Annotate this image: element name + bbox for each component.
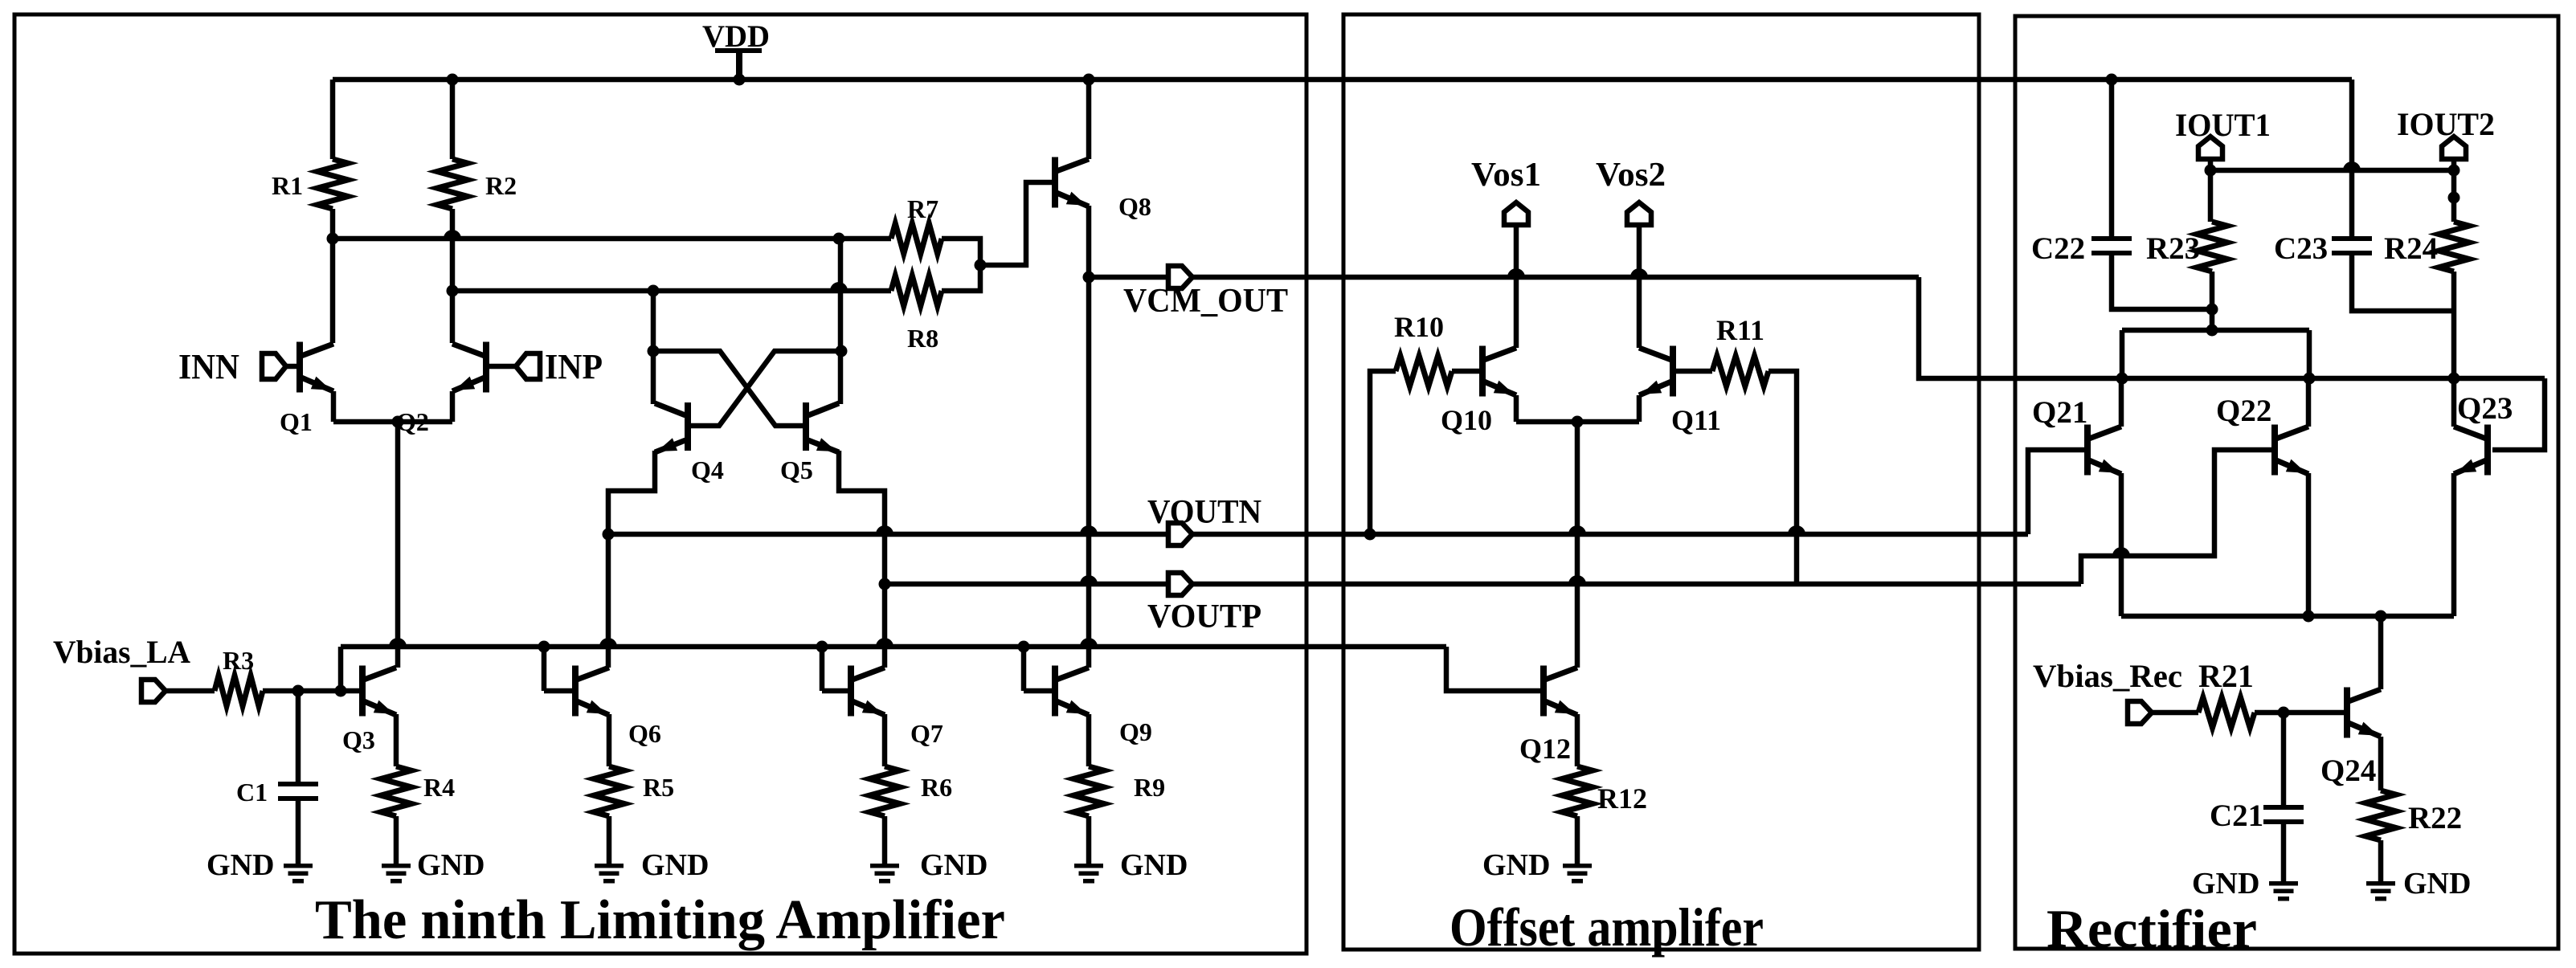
wire C23 bottom	[2352, 251, 2454, 311]
wire Q6 collector line	[606, 534, 611, 668]
wire R5 to ground	[607, 816, 612, 864]
wire VOUTP riser to Q22 base	[2081, 450, 2271, 584]
svg-text:R10: R10	[1394, 311, 1444, 343]
transistor Q3	[342, 666, 396, 755]
node R23 bridge junction	[2206, 325, 2218, 337]
wire Q10 emitter	[1514, 395, 1519, 422]
node IOUT2 junction b	[2448, 192, 2460, 204]
node C21 tap	[2278, 707, 2290, 719]
node R23 C22 junction	[2206, 304, 2218, 316]
port IOUT1	[2175, 107, 2271, 159]
svg-text:R7: R7	[907, 194, 938, 223]
wire C22 from VDD	[2109, 80, 2115, 236]
power VDD symbol	[702, 19, 770, 80]
transistor Q21	[2032, 395, 2121, 476]
node VDD junction R2	[447, 74, 459, 86]
wire Q9 emitter	[1086, 714, 1092, 766]
wire port to R21	[2152, 710, 2198, 716]
wire VCM hop Vos1	[1507, 268, 1525, 277]
wire Q6 base	[544, 688, 572, 694]
wire R22 to ground	[2378, 840, 2384, 881]
node R7 R8 join	[975, 259, 987, 272]
wire Q4 emitter to VOUTN	[608, 451, 655, 534]
wire Q5 collector	[838, 351, 844, 404]
wire node A horizontal	[333, 236, 891, 242]
ground R22	[2366, 867, 2471, 901]
transistor Q1	[280, 342, 333, 437]
wire C21 bottom	[2281, 819, 2287, 881]
svg-text:C21: C21	[2210, 798, 2263, 833]
node bias bus tap	[335, 685, 347, 697]
wire Q3 emitter	[394, 714, 399, 766]
wire Q22 collector	[2306, 378, 2312, 427]
svg-text:R4: R4	[423, 773, 455, 802]
resistor R10	[1394, 311, 1452, 386]
transistor Q4	[655, 402, 724, 484]
wire Q9 collector line	[1086, 277, 1092, 668]
port VCM_OUT	[1123, 266, 1288, 320]
capacitor C1	[236, 778, 318, 807]
wire Q22 emitter	[2306, 473, 2312, 616]
svg-text:R5: R5	[643, 773, 674, 802]
wire Q7 emitter	[882, 714, 888, 766]
svg-text:Q7: Q7	[910, 719, 943, 748]
wire Q12 emitter	[1575, 714, 1580, 766]
svg-text:Q11: Q11	[1671, 404, 1721, 436]
ground R6	[870, 848, 987, 884]
port Vbias_Rec	[2033, 658, 2182, 724]
port IOUT2	[2397, 106, 2495, 159]
node collector bus Q21	[2116, 373, 2128, 385]
wire Vos2 to Q11 collector	[1637, 225, 1642, 348]
resistor R22	[2365, 790, 2462, 840]
svg-text:GND: GND	[1482, 848, 1550, 882]
svg-text:GND: GND	[920, 848, 987, 882]
svg-text:GND: GND	[641, 848, 709, 882]
svg-text:R12: R12	[1597, 782, 1647, 815]
svg-text:GND: GND	[2192, 867, 2259, 901]
svg-text:IOUT1: IOUT1	[2175, 107, 2271, 143]
wire VOUTN hops	[876, 525, 1805, 534]
node B junction R2	[447, 285, 459, 297]
wire rectifier emitter bus	[2121, 614, 2454, 619]
wire R10 to Q10 base	[1452, 369, 1479, 374]
resistor R6	[869, 766, 952, 816]
wire VOUTN riser to Q21 base	[2028, 450, 2084, 534]
wire R9 to ground	[1086, 816, 1092, 864]
svg-text:Q6: Q6	[628, 719, 661, 748]
wire Q8 collector to VDD	[1086, 80, 1092, 159]
svg-text:Vos1: Vos1	[1471, 157, 1541, 194]
wire bias bus left drop	[338, 647, 344, 691]
ground R5	[595, 848, 709, 884]
wire VOUTP line	[885, 582, 2081, 587]
label The ninth Limiting Amplifier	[315, 889, 1005, 951]
svg-text:GND: GND	[417, 848, 485, 882]
wire bridge left drop	[2120, 330, 2125, 378]
svg-text:Offset amplifer: Offset amplifer	[1450, 897, 1764, 958]
wire bias bus hops	[389, 638, 1098, 647]
wire Q23 emitter	[2451, 473, 2457, 616]
svg-text:Q23: Q23	[2457, 391, 2513, 426]
wire port to R3	[166, 688, 215, 694]
wire Q23 collector	[2451, 378, 2457, 427]
resistor R4	[381, 766, 455, 816]
port INP	[489, 347, 603, 386]
svg-text:C23: C23	[2274, 231, 2328, 266]
wire Q5 emitter to VOUTP	[839, 451, 885, 584]
wire to Q8 base	[980, 182, 1052, 265]
svg-text:Rectifier: Rectifier	[2046, 898, 2257, 959]
resistor R5	[594, 766, 674, 816]
wire tail to Q12 collector	[1575, 422, 1580, 668]
wire R1 to node A	[330, 209, 336, 239]
wire C1 top	[296, 691, 301, 782]
port INN	[178, 347, 296, 386]
wire emitter bus Q1 Q2	[333, 419, 452, 425]
wire Q2 emitter	[450, 391, 456, 422]
svg-text:GND: GND	[2403, 867, 2471, 901]
wire bias bus	[341, 644, 1446, 650]
transistor Q10	[1441, 346, 1516, 437]
wire Q8 emitter to VCM node	[1086, 206, 1092, 277]
transistor Q24	[2320, 688, 2381, 789]
wire node A drop to cross-couple	[838, 239, 844, 351]
resistor R8	[891, 276, 942, 353]
wire R7 right	[942, 239, 980, 265]
label Offset amplifer	[1450, 897, 1764, 958]
ground R4	[382, 848, 485, 884]
svg-text:C22: C22	[2031, 231, 2085, 266]
wire Q21 collector	[2119, 378, 2124, 427]
node bias Q7 tap	[816, 641, 828, 653]
wire R21 to Q24 base	[2255, 710, 2344, 716]
wire Q7 collector line	[882, 584, 888, 668]
wire Q6 emitter	[607, 714, 612, 766]
wire Vos1 to Q10 collector	[1514, 225, 1519, 348]
wire Q1 emitter	[331, 391, 337, 422]
transistor Q7	[848, 666, 943, 749]
wire R12 to ground	[1575, 816, 1580, 864]
wire VDD to R2	[450, 80, 456, 159]
node emitter bus Q24	[2375, 611, 2387, 623]
wire IOUT1 stub	[2208, 159, 2214, 222]
svg-text:Q5: Q5	[780, 455, 813, 484]
wire bias Q6 drop	[542, 647, 547, 691]
resistor R21	[2198, 658, 2255, 728]
wire R23 bottom	[2210, 272, 2215, 330]
svg-text:INN: INN	[178, 347, 239, 386]
svg-text:Q1: Q1	[280, 407, 313, 436]
label Rectifier	[2046, 898, 2257, 959]
node C1 tap	[292, 685, 305, 697]
svg-text:The ninth Limiting Amplifier: The ninth Limiting Amplifier	[315, 889, 1005, 951]
wire bias Q7 drop	[820, 647, 825, 691]
node bias Q6 tap	[538, 641, 550, 653]
svg-text:Q4: Q4	[691, 455, 724, 484]
port VOUTN	[1147, 494, 1261, 545]
svg-text:R23: R23	[2146, 231, 2200, 266]
svg-text:VOUTP: VOUTP	[1147, 598, 1261, 635]
ground R9	[1074, 848, 1188, 884]
transistor Q22	[2216, 394, 2308, 476]
svg-text:Q3: Q3	[342, 725, 375, 754]
wire VDD rail	[333, 77, 2352, 83]
wire node A hop over R2 branch	[444, 230, 461, 239]
wire IOUT line	[2210, 168, 2454, 174]
svg-text:GND: GND	[206, 848, 274, 882]
node B junction cross-couple	[648, 285, 660, 297]
wire R10 left to VOUTN	[1370, 371, 1396, 534]
wire Q11 base to R11	[1676, 369, 1712, 374]
ground C1	[206, 848, 313, 884]
box The ninth Limiting Amplifier border	[14, 14, 1306, 954]
wire IOUT2 stub	[2451, 159, 2457, 222]
ground R12	[1482, 848, 1592, 884]
svg-text:GND: GND	[1120, 848, 1188, 882]
wire node B hop at cross-couple drop	[830, 282, 848, 291]
wire VDD to R1	[330, 80, 336, 159]
resistor R12	[1562, 766, 1647, 816]
svg-text:R24: R24	[2384, 231, 2438, 266]
wire R6 to ground	[882, 816, 888, 864]
node tail junction	[392, 416, 404, 428]
wire R2 to node B	[450, 209, 456, 291]
wire R24 bottom	[2451, 272, 2457, 378]
wire R11 right to VOUTP	[1768, 371, 1797, 584]
wire C1 bottom	[296, 796, 301, 864]
node collector bus Q23	[2448, 373, 2460, 385]
node VOUTP left	[879, 578, 891, 590]
wire Q11 emitter	[1637, 395, 1642, 422]
capacitor C22	[2031, 231, 2132, 266]
transistor Q23	[2454, 391, 2513, 476]
wire Q4 base cross link	[689, 351, 841, 426]
wire node B drop to cross-couple	[651, 291, 656, 351]
capacitor C21	[2210, 798, 2304, 833]
transistor Q11	[1639, 346, 1721, 437]
box Rectifier border	[2015, 16, 2558, 949]
svg-text:INP: INP	[545, 347, 603, 386]
wire R8 right	[942, 265, 980, 291]
resistor R23	[2146, 222, 2227, 272]
svg-text:Vbias_LA: Vbias_LA	[53, 634, 190, 670]
wire Q5 base cross link	[653, 351, 804, 426]
wire Q24 emitter	[2378, 737, 2384, 790]
node offset tail	[1572, 416, 1584, 428]
box Offset amplifer border	[1343, 14, 1979, 950]
svg-text:R6: R6	[921, 773, 952, 802]
wire VCM_OUT line	[1089, 275, 1919, 280]
svg-text:R21: R21	[2198, 658, 2254, 694]
node cross-couple left	[648, 345, 660, 357]
wire R3 to Q3 base	[263, 688, 361, 694]
transistor Q12	[1519, 666, 1577, 766]
svg-text:Q24: Q24	[2320, 754, 2376, 788]
svg-text:R11: R11	[1716, 314, 1764, 346]
wire Q7 base	[822, 688, 848, 694]
node collector bus Q22	[2304, 373, 2316, 385]
svg-text:Vos2: Vos2	[1596, 157, 1666, 194]
wire C21 top	[2281, 713, 2287, 805]
svg-text:VCM_OUT: VCM_OUT	[1123, 283, 1288, 320]
node IOUT1 junction	[2205, 165, 2217, 177]
wire IOUT hop C23	[2343, 161, 2361, 170]
svg-text:R1: R1	[272, 171, 303, 200]
resistor R3	[215, 646, 263, 706]
svg-text:C1: C1	[236, 778, 268, 807]
ground C21	[2192, 867, 2298, 901]
svg-text:Q22: Q22	[2216, 394, 2271, 428]
resistor R7	[891, 194, 942, 254]
wire bias bus to Q12	[1446, 647, 1540, 691]
node VCM junction	[1083, 272, 1095, 284]
node VOUTN left	[603, 529, 615, 541]
node cross-couple right	[836, 345, 848, 357]
wire R4 to ground	[394, 816, 399, 864]
svg-text:IOUT2: IOUT2	[2397, 106, 2495, 142]
svg-text:R3: R3	[223, 646, 254, 675]
wire tail to Q3 collector	[395, 422, 401, 668]
port VOUTP	[1147, 573, 1261, 635]
wire Q9 base	[1024, 688, 1052, 694]
wire VCM hop Vos2	[1630, 268, 1648, 277]
svg-text:Q12: Q12	[1519, 733, 1571, 765]
port Vos1	[1471, 157, 1541, 225]
svg-text:R9: R9	[1134, 773, 1165, 802]
wire VOUTP hop over Q21 emitter	[2112, 547, 2130, 556]
node VDD junction tick	[734, 74, 746, 86]
wire Q21 emitter	[2119, 473, 2124, 616]
wire bridge right drop	[2307, 330, 2312, 378]
wire Q23 base feedback	[2492, 378, 2545, 450]
transistor Q6	[572, 666, 661, 749]
node IOUT2 junction a	[2448, 165, 2460, 177]
transistor Q5	[780, 402, 839, 484]
node VDD junction Q8	[1083, 74, 1095, 86]
wire Q4 collector	[651, 351, 656, 404]
capacitor C23	[2274, 231, 2372, 266]
svg-text:Q8: Q8	[1118, 192, 1151, 221]
resistor R2	[437, 159, 517, 209]
svg-text:Q9: Q9	[1119, 717, 1152, 746]
wire node B horizontal	[452, 288, 891, 294]
wire bridge bus	[2122, 328, 2309, 333]
node bias Q9 tap	[1018, 641, 1030, 653]
node VDD junction C22	[2106, 74, 2118, 86]
transistor Q8	[1052, 157, 1151, 222]
node emitter bus Q22	[2303, 611, 2315, 623]
svg-text:Q21: Q21	[2032, 395, 2087, 430]
resistor R9	[1073, 766, 1165, 816]
node A junction cross-couple	[833, 233, 845, 245]
wire bias Q9 drop	[1021, 647, 1027, 691]
wire node A to Q1 collector	[330, 239, 336, 343]
svg-text:R2: R2	[485, 171, 517, 200]
port Vos2	[1596, 157, 1666, 225]
node A junction R1	[327, 233, 339, 245]
wire offset emitter bus	[1516, 419, 1639, 425]
resistor R1	[272, 159, 348, 209]
wire Q24 collector	[2378, 616, 2384, 689]
wire C23 from VDD	[2349, 80, 2355, 236]
svg-text:R22: R22	[2408, 801, 2462, 835]
resistor R24	[2384, 222, 2469, 272]
wire VCM bend into rectifier	[1919, 277, 2122, 378]
wire VOUTN line	[608, 532, 2028, 537]
node R10 VOUTN tap	[1364, 529, 1376, 541]
svg-text:R8: R8	[907, 324, 938, 353]
port Vbias_LA	[53, 634, 190, 702]
resistor R11	[1712, 314, 1768, 386]
wire collector bus	[2122, 376, 2545, 382]
svg-text:VOUTN: VOUTN	[1147, 494, 1261, 531]
transistor Q2	[396, 342, 489, 437]
wire node B to Q2 collector	[450, 291, 456, 343]
transistor Q9	[1052, 666, 1152, 747]
wire VOUTP hops	[1080, 575, 1586, 584]
svg-text:Q10: Q10	[1441, 404, 1492, 436]
svg-text:Vbias_Rec: Vbias_Rec	[2033, 658, 2182, 694]
wire C22 bottom	[2112, 251, 2212, 309]
